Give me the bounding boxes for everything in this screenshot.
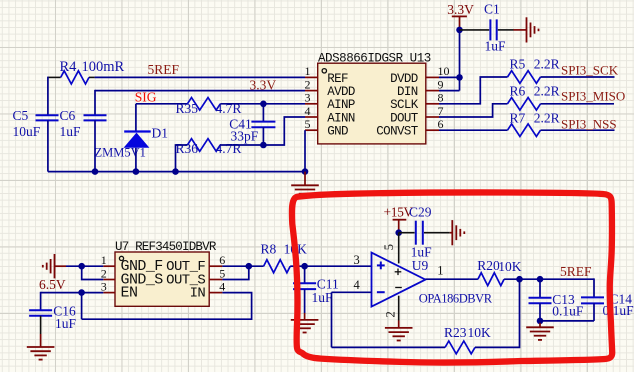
- svg-text:R6: R6: [510, 83, 526, 98]
- svg-text:7: 7: [438, 104, 444, 118]
- junction DVDD: [456, 74, 463, 81]
- wire C13 top: [539, 279, 541, 298]
- svg-text:4: 4: [354, 278, 361, 292]
- wire 6.5V to U7 pin3 EN: [41, 292, 104, 294]
- svg-text:6.5V: 6.5V: [39, 277, 66, 292]
- capacitor C6: [84, 114, 107, 116]
- svg-text:4: 4: [219, 279, 225, 293]
- diode D1 ZMM5V1: [124, 133, 150, 148]
- svg-text:10: 10: [438, 64, 450, 78]
- svg-text:9: 9: [438, 77, 444, 91]
- ground under U13: [304, 172, 306, 186]
- capacitor C11: [293, 282, 316, 284]
- junction 5REF-C13: [537, 276, 544, 283]
- wire R7 to SPI3_NSS: [541, 129, 615, 131]
- wire opamp -in: [332, 291, 372, 293]
- svg-text:1uF: 1uF: [485, 39, 507, 54]
- ground under U9: [398, 320, 400, 328]
- wire DVDD: [439, 76, 460, 78]
- wire U13 pin6 to R7: [439, 129, 508, 131]
- svg-text:2.2R: 2.2R: [534, 56, 560, 71]
- svg-text:CONVST: CONVST: [376, 125, 419, 139]
- wire V+ pin5 down: [398, 233, 400, 264]
- capacitor C5: [36, 114, 59, 116]
- svg-text:1uF: 1uF: [411, 245, 433, 260]
- junction +15V-C29: [395, 229, 402, 236]
- resistor R23: [445, 341, 475, 354]
- ground under C13: [539, 323, 541, 328]
- wire bottom to IN: [82, 293, 252, 320]
- junction C13-gnd: [537, 318, 544, 325]
- svg-text:R20: R20: [477, 258, 500, 273]
- svg-text:R23: R23: [444, 325, 467, 340]
- U7 left pin 1 stub: [103, 265, 115, 267]
- wire EN down: [81, 293, 83, 320]
- wire 3.3V down to DVDD: [459, 30, 461, 91]
- svg-text:C5: C5: [13, 108, 29, 123]
- capacitor C14: [581, 296, 604, 298]
- svg-text:3: 3: [101, 279, 107, 293]
- wire U13 pin5 down: [304, 130, 306, 171]
- wire C29 to gnd: [424, 232, 450, 234]
- junction C6-rail: [92, 168, 99, 175]
- wire R5 to SPI3_SCK: [541, 76, 615, 78]
- svg-text:R7: R7: [510, 111, 526, 126]
- wire 6.5V down to C16: [40, 292, 42, 310]
- resistor R8: [264, 260, 291, 273]
- junction pin3-C41: [260, 101, 267, 108]
- wire SIG down to D1: [135, 104, 137, 132]
- wire feedback bottom: [332, 346, 446, 348]
- svg-text:GND: GND: [327, 125, 348, 139]
- resistor R36: [187, 139, 220, 152]
- U13 right pin 9 stub: [426, 90, 439, 92]
- wire R4-left down to C5: [47, 77, 49, 116]
- wire R36 elbow to rail: [176, 145, 188, 172]
- svg-text:ZMM5V1: ZMM5V1: [95, 145, 146, 159]
- wire C11 down: [304, 289, 306, 313]
- wire D1 to gnd rail: [135, 148, 137, 172]
- junction D1-rail: [133, 168, 140, 175]
- U13 left pin 1 stub: [305, 76, 318, 78]
- svg-text:2.2R: 2.2R: [534, 111, 560, 126]
- wire U7 OUT_F to R8: [222, 265, 263, 267]
- svg-text:ADS8866IDGSR U13: ADS8866IDGSR U13: [318, 51, 431, 65]
- wire V- pin2 down: [398, 296, 400, 321]
- wire gnd rail: [48, 171, 305, 173]
- svg-text:R8: R8: [261, 242, 277, 257]
- svg-text:OPA186DBVR: OPA186DBVR: [419, 291, 493, 305]
- svg-text:REF: REF: [327, 72, 348, 86]
- U13 right pin 10 stub: [426, 76, 439, 78]
- svg-text:DIN: DIN: [397, 85, 418, 99]
- op-amp minus input mark: [377, 291, 385, 293]
- U7 left pin 2 stub: [103, 279, 115, 281]
- U7 left pin 3 stub: [103, 292, 115, 294]
- svg-text:IN: IN: [190, 286, 206, 302]
- svg-text:100mR: 100mR: [82, 59, 125, 75]
- svg-text:SCLK: SCLK: [390, 98, 419, 112]
- wire U13 pin4 elbow: [263, 117, 305, 145]
- wire R20 to node: [504, 278, 540, 280]
- wire R35 to U13 pin3: [220, 103, 305, 105]
- svg-text:5: 5: [305, 117, 311, 131]
- svg-text:SPI3_SCK: SPI3_SCK: [561, 62, 619, 77]
- junction output-feedback: [516, 276, 523, 283]
- wire C14 bottom: [593, 303, 595, 321]
- svg-text:0.1uF: 0.1uF: [552, 304, 584, 319]
- wire 5REF to U13 pin1: [95, 76, 305, 78]
- svg-text:AVDD: AVDD: [327, 85, 355, 99]
- U13 right pin 7 stub: [426, 116, 439, 118]
- svg-text:AINP: AINP: [327, 98, 355, 112]
- wire C1 to gnd: [498, 29, 514, 31]
- wire to C29: [399, 232, 415, 234]
- wire R8 to opamp node: [290, 265, 304, 267]
- capacitor C29: [415, 221, 417, 245]
- svg-text:1uF: 1uF: [55, 316, 77, 331]
- wire R23 to output node: [475, 279, 520, 347]
- IC U13 ADS8866IDGSR body: [318, 63, 426, 144]
- svg-text:SPI3_NSS: SPI3_NSS: [561, 116, 617, 131]
- U13 right pin 8 stub: [426, 103, 439, 105]
- svg-text:6: 6: [438, 117, 444, 131]
- op-amp U9 triangle: [372, 253, 426, 307]
- svg-text:10K: 10K: [498, 259, 522, 274]
- svg-text:8: 8: [438, 91, 444, 105]
- junction C41-R36: [260, 142, 267, 149]
- IC U7 REF3450IDBVR body: [115, 252, 209, 306]
- resistor R4: [61, 71, 89, 84]
- op-amp small plus (V+): [395, 271, 402, 273]
- svg-text:3: 3: [354, 253, 360, 267]
- svg-text:DVDD: DVDD: [390, 72, 418, 86]
- wire C41 top: [262, 104, 264, 122]
- wire R36 to C41: [220, 144, 263, 146]
- U7 right pin 4 stub: [209, 292, 222, 294]
- wire opamp output: [425, 278, 478, 280]
- capacitor C13: [529, 297, 552, 299]
- svg-text:1uF: 1uF: [60, 124, 82, 139]
- svg-text:SIG: SIG: [135, 89, 157, 104]
- resistor R7: [508, 124, 541, 137]
- svg-text:2: 2: [305, 77, 311, 91]
- capacitor C1: [489, 19, 491, 40]
- U13 right pin 6 stub: [426, 129, 439, 131]
- svg-text:C29: C29: [409, 205, 432, 220]
- op-amp plus input mark: [377, 264, 385, 266]
- resistor R35: [187, 98, 220, 111]
- ground right of C29: [450, 232, 453, 234]
- wire C14 top: [593, 278, 595, 297]
- U13 left pin 4 stub: [305, 116, 318, 118]
- wire C41 bottom: [262, 127, 264, 145]
- wire 5REF right: [540, 278, 594, 280]
- svg-text:AINN: AINN: [327, 111, 355, 125]
- capacitor C41: [251, 121, 275, 123]
- svg-text:R4: R4: [60, 59, 78, 75]
- junction pin5-rail: [302, 168, 309, 175]
- junction 6.5V-EN: [78, 289, 85, 296]
- wire U7 pin2 elbow: [82, 266, 104, 279]
- svg-text:1: 1: [305, 64, 311, 78]
- svg-text:U9: U9: [412, 258, 429, 273]
- svg-text:5: 5: [382, 244, 396, 250]
- junction OUT_F: [246, 263, 253, 270]
- wire U7 OUT_S elbow: [222, 266, 248, 279]
- wire DIN tie: [439, 90, 460, 92]
- wire C16 to gnd: [40, 316, 42, 334]
- junction 3.3V-C1: [456, 27, 463, 34]
- resistor R4 leads: [48, 76, 61, 78]
- U13 left pin 2 stub: [305, 90, 318, 92]
- U13 left pin 5 stub: [305, 129, 318, 131]
- svg-text:SPI3_MISO: SPI3_MISO: [561, 89, 625, 104]
- svg-text:5REF: 5REF: [560, 264, 592, 279]
- wire -in down: [331, 292, 333, 347]
- wire U13 pin8 elbow: [439, 77, 508, 104]
- ground right of C1: [514, 29, 527, 31]
- svg-text:4.7R: 4.7R: [216, 141, 242, 156]
- svg-text:DOUT: DOUT: [390, 111, 419, 125]
- resistor R20: [478, 273, 504, 286]
- wire node to opamp +in: [305, 265, 372, 267]
- wire C5 to gnd rail: [47, 120, 49, 171]
- wire 3.3V to U13 pin2: [95, 90, 305, 92]
- svg-text:6: 6: [219, 253, 225, 267]
- svg-text:EN: EN: [121, 285, 138, 302]
- svg-text:1: 1: [437, 264, 443, 278]
- wire C6 to gnd rail: [94, 120, 96, 171]
- svg-text:C6: C6: [60, 108, 76, 123]
- junction R8-C11: [301, 263, 308, 270]
- ground under C16: [40, 334, 42, 347]
- svg-text:2: 2: [101, 266, 107, 280]
- svg-text:2.2R: 2.2R: [534, 83, 560, 98]
- wire C11 top: [304, 266, 306, 283]
- svg-text:C1: C1: [484, 2, 500, 17]
- svg-text:2: 2: [383, 311, 397, 317]
- ground left of U7: [55, 265, 67, 267]
- IC U13 pin-1 indicator: [322, 69, 326, 73]
- svg-text:5REF: 5REF: [148, 62, 180, 77]
- resistor R5: [508, 71, 541, 84]
- resistor R6: [508, 98, 541, 111]
- junction R36-rail: [172, 168, 179, 175]
- svg-text:R5: R5: [510, 56, 526, 71]
- wire C13 bottom: [539, 303, 541, 321]
- wire bottom to C14: [540, 320, 594, 322]
- svg-text:R36: R36: [176, 141, 199, 156]
- wire R6 to SPI3_MISO: [541, 103, 615, 105]
- svg-text:4: 4: [305, 104, 311, 118]
- svg-text:1uF: 1uF: [312, 290, 334, 305]
- wire SIG: [136, 103, 188, 105]
- wire to C1: [460, 29, 490, 31]
- svg-text:1: 1: [101, 253, 107, 267]
- capacitor C16: [29, 309, 52, 311]
- IC U7 pin-1 indicator: [119, 256, 123, 260]
- ground under C11: [304, 313, 306, 320]
- U7 right pin 6 stub: [209, 265, 222, 267]
- wire gnd to U7 pin1: [66, 265, 103, 267]
- svg-text:U7 REF3450IDBVR: U7 REF3450IDBVR: [115, 240, 217, 254]
- svg-text:3.3V: 3.3V: [447, 2, 474, 17]
- U13 left pin 3 stub: [305, 103, 318, 105]
- svg-text:R35: R35: [176, 101, 199, 116]
- junction U7 gnd: [78, 263, 85, 270]
- U7 right pin 5 stub: [209, 279, 222, 281]
- svg-text:3: 3: [305, 91, 311, 105]
- red marker annotation circle: [292, 192, 612, 362]
- wire U13 pin7 elbow: [439, 104, 508, 117]
- svg-text:10uF: 10uF: [13, 124, 41, 139]
- wire 3.3V down to C6: [94, 90, 96, 115]
- svg-text:10K: 10K: [468, 325, 492, 340]
- svg-text:5: 5: [219, 266, 225, 280]
- op-amp small minus (V-): [395, 287, 402, 289]
- svg-text:D1: D1: [152, 126, 169, 141]
